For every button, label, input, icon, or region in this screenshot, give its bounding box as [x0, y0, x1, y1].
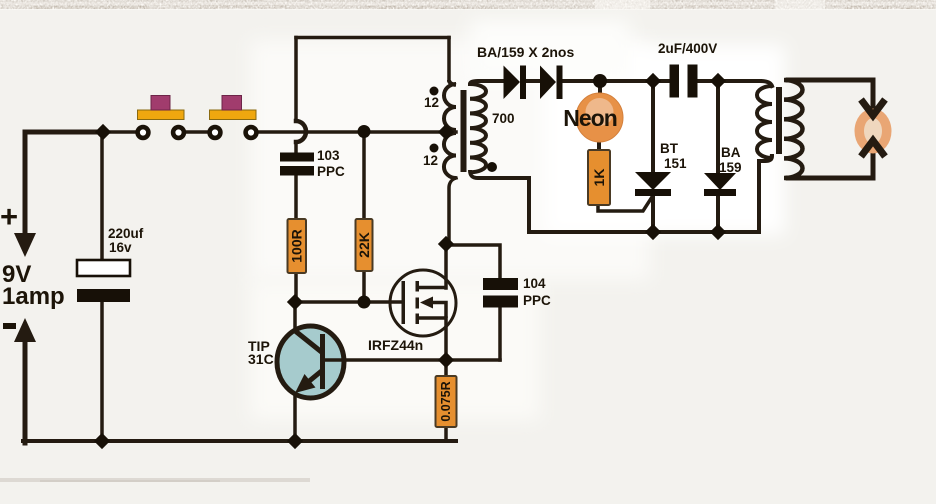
capacitor C4 2uF/400V left plate — [670, 65, 680, 98]
wire: MOSFET source lead — [444, 318, 448, 360]
svg-text:100R: 100R — [289, 229, 305, 262]
MOSFET drain internal lead — [418, 286, 446, 290]
spark gap lower electrode arrow — [861, 141, 885, 157]
wire: capacitor C1 bottom lead — [100, 301, 104, 441]
T1 secondary polarity dot — [487, 162, 497, 172]
capacitor C2 103 PPC top plate — [280, 153, 314, 162]
capacitor C1 220uf 16v positive plate — [77, 260, 130, 276]
wire: T1 primary bottom lead to drain node — [449, 178, 456, 244]
svg-text:151: 151 — [664, 156, 687, 171]
junction node: battery positive — [95, 124, 111, 140]
junction node: HV rail D3 anode — [710, 73, 726, 89]
svg-text:BA/159 X 2nos: BA/159 X 2nos — [477, 44, 574, 60]
capacitor C4 right plate — [688, 65, 698, 98]
svg-text:+: + — [0, 199, 18, 234]
label TIP 31C — [248, 338, 274, 367]
wire: T2 primary bottom lead — [759, 156, 772, 232]
MOSFET source internal lead — [418, 316, 446, 320]
battery negative indicator arrow line — [23, 338, 28, 443]
wire: T2 secondary top lead to spark gap — [788, 80, 873, 110]
junction node: MOSFET drain — [438, 236, 454, 252]
wire: resistor R2 bottom lead — [362, 271, 366, 302]
junction node: MOSFET source — [438, 352, 454, 368]
battery minus sign label — [3, 323, 16, 329]
junction node: ground Q1 emitter — [287, 433, 303, 449]
Q1 emitter stroke — [302, 371, 322, 387]
wire: switch S2 to transformer T1 center tap — [258, 130, 456, 134]
wire: switch S1 to switch S2 — [185, 130, 209, 134]
svg-text:12: 12 — [424, 95, 439, 110]
value label 220uf 16v — [108, 226, 144, 255]
label BT 151 — [660, 141, 687, 171]
spark gap glow — [855, 109, 892, 154]
resistor R4 1K — [588, 150, 610, 205]
wire: diode D2 to HV rail — [562, 79, 670, 83]
wire: diode D3 anode lead — [716, 81, 720, 173]
value label 104 PPC — [523, 276, 551, 308]
wire: C2 to resistor R1 — [294, 175, 298, 219]
wire: junction to switch S1 — [103, 130, 137, 134]
Q1 base lead — [325, 358, 342, 362]
junction node: gate rail R2 — [358, 296, 371, 309]
neon lamp NE1 — [563, 93, 623, 142]
wire: top loop horizontal — [296, 36, 449, 40]
pushbutton switch S1 — [138, 96, 185, 120]
wire: T1 secondary bottom lead — [470, 172, 529, 232]
wire: neon lamp to resistor R4 — [597, 140, 601, 152]
transformer T2 primary winding — [757, 86, 772, 158]
wire: MOSFET drain lead — [444, 244, 448, 288]
wire: resistor R5 bottom lead — [444, 427, 448, 441]
svg-text:BT: BT — [660, 141, 679, 156]
wire: diode D3 cathode lead — [716, 196, 720, 232]
wire: capacitor C3 bottom lead — [498, 307, 502, 360]
battery positive arrowhead — [14, 233, 36, 257]
svg-text:BA: BA — [721, 145, 741, 160]
resistor R1 100R — [288, 219, 307, 273]
svg-text:2uF/400V: 2uF/400V — [658, 41, 717, 56]
wire: R4 bottom to SCR gate — [598, 197, 652, 211]
Q1 collector stroke — [294, 330, 322, 352]
battery negative arrowhead — [14, 318, 36, 342]
svg-text:12: 12 — [423, 153, 438, 168]
diode D3 BA159 — [704, 173, 736, 196]
capacitor C2 bottom plate — [280, 166, 314, 176]
wire: SCR anode lead — [651, 81, 655, 172]
junction node: ground C1 — [94, 433, 110, 449]
junction node: HV rail neon — [593, 74, 607, 88]
switch terminal contacts — [138, 127, 257, 138]
MOSFET Q2 IRFZ44n body circle — [390, 270, 456, 336]
wire: drain node to capacitor C3 top — [446, 245, 500, 278]
T1 polarity dot upper — [430, 87, 439, 96]
transformer T2 core — [776, 87, 782, 154]
wire: diode D1 to diode D2 — [526, 79, 540, 83]
junction node: return rail SCR cathode — [645, 224, 661, 240]
Q1 base bar — [320, 334, 325, 389]
MOSFET body arrow — [420, 297, 433, 309]
svg-text:16v: 16v — [109, 240, 132, 255]
transformer T1 core — [461, 90, 467, 172]
wire: neon lamp top lead — [598, 81, 602, 95]
battery positive indicator arrow — [23, 132, 28, 237]
svg-text:Neon: Neon — [563, 105, 617, 131]
junction node: switch rail to R2 — [358, 125, 371, 138]
wire: Q1 base to MOSFET source node — [342, 358, 500, 362]
junction node: T1 center tap — [438, 124, 454, 140]
wire: resistor R5 top lead — [444, 360, 448, 376]
svg-text:700: 700 — [492, 111, 515, 126]
svg-text:159: 159 — [719, 160, 742, 175]
capacitor C3 104 PPC top plate — [483, 278, 518, 290]
wire: positive rail from battery junction to left edge — [25, 130, 103, 135]
SCR U1 BT151 — [635, 172, 671, 196]
capacitor C1 negative plate — [77, 289, 130, 302]
wire: HV rail from C4 to T2 primary — [697, 79, 760, 83]
transformer T1 secondary winding — [470, 84, 486, 172]
diode D1 BA159 — [504, 66, 527, 100]
svg-text:1amp: 1amp — [2, 283, 65, 310]
wire: R1 bottom to gate node — [294, 273, 298, 302]
wire: transistor Q1 emitter lead — [293, 393, 297, 441]
svg-text:IRFZ44n: IRFZ44n — [368, 337, 423, 353]
svg-text:220uf: 220uf — [108, 226, 144, 241]
transformer T2 secondary winding — [784, 80, 803, 178]
junction node: return rail D3 cathode — [710, 224, 726, 240]
junction node: HV rail SCR anode — [645, 73, 661, 89]
resistor R2 22K — [356, 219, 373, 271]
MOSFET channel dashes — [416, 281, 420, 324]
label BA 159 — [719, 145, 742, 175]
transformer T1 primary winding — [444, 80, 456, 178]
value label 103 PPC — [317, 148, 345, 179]
wire: resistor R2 top lead — [362, 132, 366, 219]
pushbutton switch S2 — [210, 96, 257, 120]
svg-text:PPC: PPC — [317, 164, 345, 179]
resistor R5 0.075R — [436, 376, 457, 427]
transistor Q1 TIP31C body — [277, 326, 344, 398]
junction node: gate rail left — [287, 294, 303, 310]
wire: spark gap bottom to T2 secondary — [788, 144, 873, 178]
wire: SCR cathode lead — [651, 196, 655, 232]
Q1 emitter arrowhead — [295, 374, 316, 393]
MOSFET gate bar — [402, 281, 406, 324]
T1 polarity dot lower — [430, 144, 439, 153]
wire: top loop right vertical to T1 primary — [447, 38, 451, 81]
battery label 9V 1amp — [2, 261, 65, 310]
wire: T2 primary top lead — [760, 81, 772, 86]
wire: T1 secondary top lead to diode D1 — [470, 81, 503, 84]
svg-text:22K: 22K — [356, 232, 372, 258]
wire: vertical branch to capacitor C2 with hop — [294, 38, 298, 122]
svg-text:31C: 31C — [248, 351, 274, 367]
wire: secondary return rail — [529, 230, 759, 234]
wire: capacitor C1 top lead — [100, 132, 104, 260]
svg-text:103: 103 — [317, 148, 340, 163]
wire hop over switch rail — [296, 121, 306, 142]
svg-text:PPC: PPC — [523, 293, 551, 308]
svg-text:104: 104 — [523, 276, 546, 291]
svg-text:1K: 1K — [591, 169, 607, 187]
wire: transistor Q1 collector lead — [293, 302, 297, 331]
svg-text:0.075R: 0.075R — [439, 381, 453, 421]
capacitor C3 bottom plate — [483, 296, 518, 308]
diode D2 BA159 — [540, 66, 563, 100]
wire: bottom ground rail — [23, 439, 456, 443]
wire: gate rail to MOSFET gate — [295, 300, 403, 304]
spark gap upper electrode arrow — [861, 100, 885, 116]
